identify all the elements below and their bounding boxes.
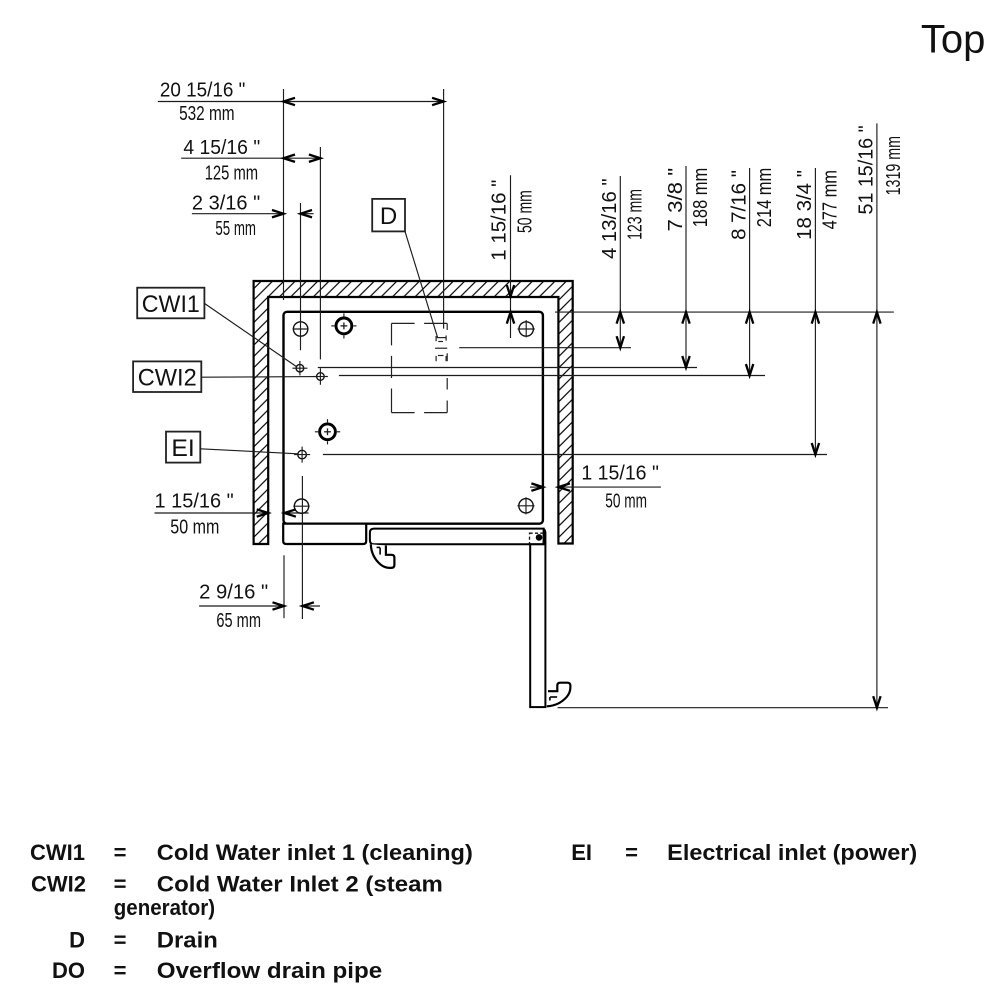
- dimension 8 7/16" / 214 mm (CWI2 depth, rotated): [339, 168, 776, 376]
- svg-text:EI: EI: [171, 435, 194, 462]
- door (closed position): [370, 529, 544, 545]
- mounting hole top-right: [519, 322, 533, 336]
- svg-text:=: =: [114, 872, 127, 897]
- svg-text:50 mm: 50 mm: [605, 490, 647, 513]
- svg-text:1319 mm: 1319 mm: [882, 136, 905, 195]
- svg-text:CWI2: CWI2: [31, 872, 86, 897]
- svg-text:generator): generator): [114, 895, 215, 920]
- svg-text:D: D: [69, 927, 85, 952]
- svg-text:CWI1: CWI1: [30, 840, 85, 865]
- svg-text:65 mm: 65 mm: [216, 609, 261, 632]
- svg-text:=: =: [114, 958, 127, 983]
- svg-text:2 9/16 ": 2 9/16 ": [199, 580, 268, 603]
- svg-text:EI: EI: [571, 840, 592, 865]
- bolt hole ring upper: [331, 313, 356, 338]
- label CWI1: [137, 288, 297, 367]
- door pivot dashed box: [530, 533, 544, 544]
- legend row EI: [571, 840, 917, 865]
- dimension 1 15/16" / 50 mm (right clearance): [530, 462, 661, 513]
- svg-text:Cold Water Inlet 2 (steam: Cold Water Inlet 2 (steam: [157, 872, 443, 897]
- svg-text:8 7/16 ": 8 7/16 ": [727, 170, 750, 240]
- svg-text:50 mm: 50 mm: [170, 516, 219, 539]
- drain pipe detail (hidden lines): [435, 336, 447, 362]
- open door pivot-end corner stub: [543, 529, 545, 545]
- svg-text:=: =: [114, 927, 127, 952]
- dimension 4 13/16" / 123 mm (drain depth, rotated): [459, 176, 646, 348]
- svg-text:18 3/4 ": 18 3/4 ": [793, 170, 816, 240]
- legend row CWI1: [30, 840, 473, 865]
- dimension 2 9/16" / 65 mm: [199, 476, 320, 632]
- svg-text:55 mm: 55 mm: [215, 217, 256, 240]
- svg-text:1 15/16 ": 1 15/16 ": [155, 490, 234, 513]
- mounting hole top-left: [293, 322, 307, 336]
- EI electrical inlet hole: [294, 447, 310, 463]
- svg-text:477 mm: 477 mm: [819, 170, 842, 229]
- svg-text:Electrical inlet (power): Electrical inlet (power): [667, 840, 917, 865]
- door (open position): [530, 544, 545, 707]
- CWI2 inlet hole: [313, 368, 328, 385]
- front left fixed panel: [283, 524, 366, 544]
- drain area dashed outline: [392, 323, 448, 412]
- svg-text:1 15/16 ": 1 15/16 ": [488, 180, 511, 261]
- svg-text:1 15/16 ": 1 15/16 ": [581, 462, 659, 485]
- svg-text:4 15/16 ": 4 15/16 ": [183, 136, 260, 159]
- svg-text:D: D: [380, 203, 397, 230]
- door handle (closed position): [371, 544, 395, 568]
- svg-text:532 mm: 532 mm: [179, 102, 235, 125]
- svg-text:CWI2: CWI2: [138, 365, 197, 392]
- appliance body outline (top view): [284, 312, 543, 524]
- dimension 1 15/16" / 50 mm (top clearance, rotated): [488, 175, 537, 338]
- label D: [372, 199, 438, 338]
- svg-text:214 mm: 214 mm: [753, 168, 776, 227]
- svg-text:Drain: Drain: [157, 927, 218, 952]
- door handle (open position): [547, 683, 571, 707]
- mounting hole bottom-right: [519, 499, 533, 513]
- svg-text:DO: DO: [52, 958, 85, 983]
- svg-text:=: =: [625, 840, 638, 865]
- svg-text:=: =: [114, 840, 127, 865]
- svg-text:125 mm: 125 mm: [205, 162, 258, 185]
- label CWI2: [133, 361, 316, 392]
- svg-text:Overflow drain pipe: Overflow drain pipe: [157, 958, 382, 983]
- dimension 20 15/16" / 532 mm: [158, 79, 444, 329]
- datum line (appliance top edge extended): [555, 311, 894, 313]
- svg-text:CWI1: CWI1: [142, 291, 200, 318]
- svg-text:51 15/16 ": 51 15/16 ": [855, 125, 878, 214]
- svg-text:7 3/8 ": 7 3/8 ": [664, 168, 687, 232]
- dimension 18 3/4" / 477 mm (EI depth, rotated): [323, 168, 842, 455]
- wall (hatched, top + left + right): [254, 281, 573, 544]
- mounting hole bottom-left: [294, 499, 308, 513]
- svg-text:4 13/16 ": 4 13/16 ": [598, 178, 621, 259]
- door pivot point: [536, 534, 543, 541]
- bolt hole ring lower: [315, 419, 340, 444]
- dimension 4 15/16" / 125 mm: [181, 136, 320, 360]
- svg-text:Cold Water inlet 1 (cleaning): Cold Water inlet 1 (cleaning): [157, 840, 473, 865]
- dimension 2 3/16" / 55 mm: [192, 191, 314, 350]
- legend row CWI2: [31, 872, 443, 921]
- dimension 1 15/16" / 50 mm (left clearance): [155, 490, 309, 539]
- dimension 7 3/8" / 188 mm (CWI1 depth, rotated): [318, 166, 712, 368]
- legend row DO: [52, 958, 382, 983]
- svg-text:123 mm: 123 mm: [624, 189, 647, 240]
- svg-text:50 mm: 50 mm: [513, 190, 536, 233]
- svg-text:20 15/16 ": 20 15/16 ": [160, 79, 245, 102]
- svg-text:2 3/16 ": 2 3/16 ": [192, 191, 260, 214]
- svg-text:188 mm: 188 mm: [689, 168, 712, 227]
- CWI1 inlet hole: [292, 361, 307, 375]
- svg-text:Top: Top: [921, 17, 986, 61]
- legend row D: [69, 927, 218, 952]
- label EI: [166, 432, 298, 463]
- dimension 51 15/16" / 1319 mm (open door depth, rotated): [558, 123, 906, 707]
